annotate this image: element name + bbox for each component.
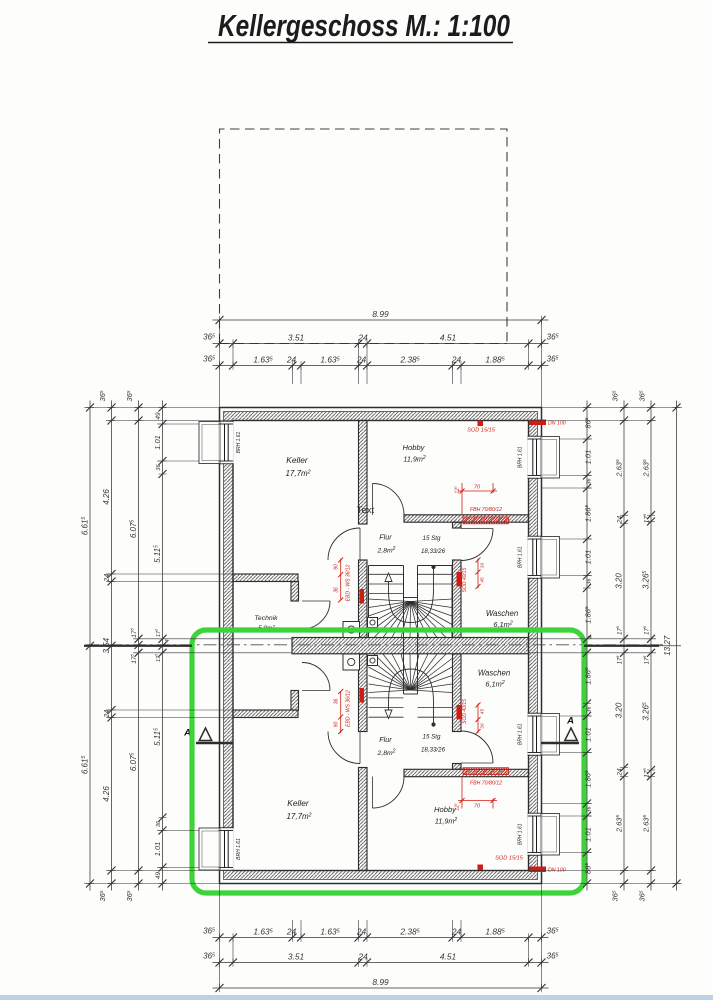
svg-text:Text: Text: [357, 505, 375, 516]
svg-text:24: 24: [357, 333, 368, 343]
svg-text:24: 24: [286, 927, 297, 937]
svg-text:11,9m2: 11,9m2: [403, 455, 425, 464]
svg-text:SOD 15/15: SOD 15/15: [495, 856, 524, 862]
svg-text:1.01: 1.01: [153, 842, 162, 857]
svg-text:36: 36: [156, 464, 162, 471]
svg-text:36: 36: [480, 563, 485, 569]
svg-text:4.26: 4.26: [102, 786, 111, 802]
svg-text:Technik: Technik: [254, 615, 278, 622]
svg-text:45: 45: [480, 709, 485, 715]
svg-text:Flur: Flur: [379, 735, 392, 744]
svg-text:Kellergeschoss M.: 1:100: Kellergeschoss M.: 1:100: [218, 8, 510, 43]
svg-text:24: 24: [451, 355, 462, 365]
svg-text:1.01: 1.01: [583, 727, 592, 742]
svg-text:3.20: 3.20: [614, 702, 623, 718]
svg-text:36: 36: [480, 723, 485, 729]
svg-text:1.01: 1.01: [583, 450, 592, 465]
svg-text:24: 24: [356, 927, 367, 937]
svg-text:36: 36: [334, 699, 340, 705]
svg-text:90: 90: [334, 564, 340, 570]
svg-text:8.99: 8.99: [372, 309, 389, 319]
svg-text:49: 49: [155, 412, 162, 420]
svg-text:3.51: 3.51: [288, 952, 304, 962]
svg-text:1.01: 1.01: [153, 435, 162, 450]
svg-text:8.99: 8.99: [372, 977, 389, 987]
svg-text:36: 36: [586, 578, 592, 585]
svg-text:17,7m2: 17,7m2: [285, 469, 310, 478]
svg-text:36: 36: [586, 806, 592, 813]
svg-text:1.01: 1.01: [583, 827, 592, 842]
svg-text:36: 36: [586, 706, 592, 713]
svg-text:24: 24: [616, 516, 623, 525]
svg-text:24: 24: [286, 355, 297, 365]
svg-text:BRH 1.61: BRH 1.61: [236, 838, 242, 860]
svg-text:4.51: 4.51: [440, 952, 456, 962]
svg-text:DN 100: DN 100: [548, 421, 566, 427]
svg-text:1.01: 1.01: [583, 550, 592, 565]
svg-text:BRH 1.61: BRH 1.61: [518, 823, 524, 845]
svg-text:Keller: Keller: [287, 798, 310, 808]
svg-text:70: 70: [474, 485, 481, 491]
svg-text:90: 90: [334, 722, 340, 728]
svg-text:BRH 1.61: BRH 1.61: [518, 446, 524, 468]
svg-text:36: 36: [156, 820, 162, 827]
svg-text:2.385: 2.385: [399, 355, 419, 365]
svg-text:Waschen: Waschen: [478, 669, 510, 678]
svg-text:3.20: 3.20: [614, 573, 623, 589]
svg-text:Keller: Keller: [286, 455, 309, 465]
svg-text:24: 24: [616, 768, 623, 777]
svg-text:15 Stg: 15 Stg: [423, 734, 441, 741]
svg-text:FBH 70/80/12: FBH 70/80/12: [470, 781, 502, 787]
svg-text:SOD 15/15: SOD 15/15: [467, 428, 496, 434]
svg-text:BRH 1.61: BRH 1.61: [236, 431, 242, 453]
svg-text:49: 49: [155, 872, 162, 880]
svg-text:24: 24: [356, 355, 367, 365]
svg-text:4.51: 4.51: [440, 333, 456, 343]
svg-text:24: 24: [357, 952, 368, 962]
svg-text:15 Stg: 15 Stg: [423, 535, 441, 542]
svg-text:A: A: [566, 716, 574, 727]
svg-text:3.51: 3.51: [288, 333, 304, 343]
svg-text:45: 45: [480, 577, 485, 583]
svg-text:SOD 40/15: SOD 40/15: [462, 699, 468, 724]
svg-text:17,7m2: 17,7m2: [286, 812, 311, 821]
svg-text:4.26: 4.26: [102, 489, 111, 505]
svg-text:EBD - WS 36/12: EBD - WS 36/12: [346, 690, 352, 727]
svg-text:FBH 70/80/12: FBH 70/80/12: [470, 507, 502, 513]
svg-text:BRH 1.61: BRH 1.61: [518, 723, 524, 745]
svg-text:36: 36: [334, 587, 340, 593]
svg-text:11,9m2: 11,9m2: [435, 817, 457, 826]
svg-text:SOD 40/15: SOD 40/15: [462, 567, 468, 592]
svg-text:70: 70: [474, 804, 481, 810]
svg-text:EBD - WS 36/12: EBD - WS 36/12: [346, 564, 352, 601]
svg-text:BRH 1.61: BRH 1.61: [518, 546, 524, 568]
svg-text:Flur: Flur: [379, 533, 392, 542]
svg-text:18,33/26: 18,33/26: [421, 548, 446, 555]
svg-text:2.385: 2.385: [399, 927, 419, 937]
svg-text:Hobby: Hobby: [403, 443, 426, 452]
svg-text:Waschen: Waschen: [486, 609, 518, 618]
svg-text:18,33/26: 18,33/26: [421, 747, 446, 754]
svg-text:36: 36: [586, 478, 592, 485]
